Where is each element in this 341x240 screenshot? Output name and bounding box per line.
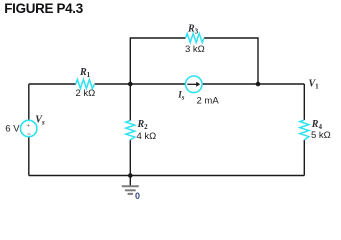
svg-text:R2: R2 — [137, 119, 149, 131]
wire: middle center segment (R1 right to Is left, through node) — [95, 83, 186, 85]
svg-text:V1: V1 — [309, 79, 320, 91]
svg-text:Is: Is — [177, 90, 185, 102]
wire: middle right segment (Is right to right corner) — [202, 83, 304, 85]
svg-text:2 mA: 2 mA — [197, 95, 220, 106]
svg-text:+: + — [26, 122, 30, 129]
svg-text:3 kΩ: 3 kΩ — [185, 44, 205, 55]
svg-text:4 kΩ: 4 kΩ — [137, 131, 157, 142]
svg-text:5 kΩ: 5 kΩ — [311, 130, 331, 141]
resistor R2 — [126, 119, 156, 142]
wire: R2 bottom stub — [129, 140, 131, 176]
svg-text:FIGURE P4.3: FIGURE P4.3 — [4, 1, 83, 16]
junction at ground node — [128, 173, 133, 178]
svg-text:0: 0 — [135, 191, 140, 201]
resistor R3 — [185, 24, 205, 55]
junction at node V2 (R1/R2/R3) — [128, 82, 133, 87]
wire: middle left segment (Vs top to R1 left) — [29, 83, 76, 85]
junction at node V1 top — [256, 82, 261, 87]
resistor R1 — [76, 67, 96, 99]
svg-text:R4: R4 — [311, 119, 323, 131]
resistor R4 — [300, 119, 331, 141]
voltage source Vs — [5, 114, 45, 138]
svg-text:Vs: Vs — [35, 114, 45, 126]
current source Is — [177, 76, 219, 106]
svg-text:2 kΩ: 2 kΩ — [76, 88, 96, 99]
svg-text:R3: R3 — [187, 24, 199, 36]
wire: top loop left (node up and across to R3 left) — [130, 38, 185, 84]
svg-text:R1: R1 — [79, 67, 91, 79]
wire: left branch above Vs — [28, 84, 30, 120]
wire: bottom wire — [29, 175, 305, 177]
ground — [122, 176, 139, 194]
wire: left branch below Vs — [28, 137, 30, 176]
wire: R2 top stub — [129, 84, 131, 121]
svg-text:−: − — [27, 130, 32, 139]
wire: right branch above R4 — [303, 84, 305, 120]
wire: right branch below R4 — [303, 140, 305, 176]
svg-text:6 V: 6 V — [5, 123, 20, 134]
wire: top loop right (R3 right across and down to node) — [204, 38, 258, 84]
